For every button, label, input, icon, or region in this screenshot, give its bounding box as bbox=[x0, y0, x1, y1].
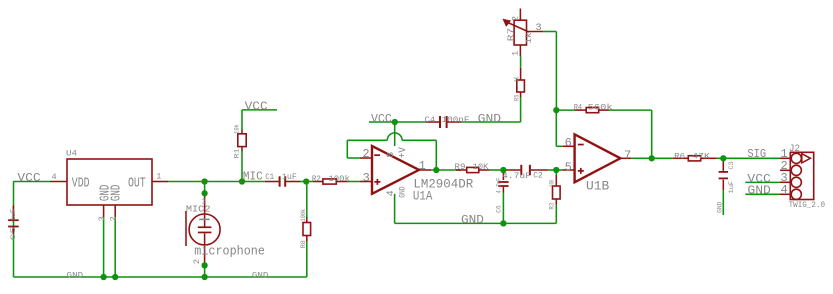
svg-text:47K: 47K bbox=[692, 152, 711, 162]
svg-text:OUT: OUT bbox=[128, 177, 146, 192]
svg-text:R4: R4 bbox=[574, 103, 583, 113]
svg-text:10K: 10K bbox=[473, 162, 490, 172]
svg-text:C5: C5 bbox=[10, 227, 18, 241]
svg-text:GND: GND bbox=[461, 213, 484, 227]
svg-text:1: 1 bbox=[201, 196, 206, 206]
svg-text:R7: R7 bbox=[506, 28, 516, 41]
svg-text:C1: C1 bbox=[265, 172, 274, 182]
svg-text:R5: R5 bbox=[514, 95, 522, 102]
svg-text:4: 4 bbox=[781, 183, 788, 197]
svg-text:GND: GND bbox=[110, 185, 125, 202]
svg-text:R3: R3 bbox=[548, 203, 556, 210]
svg-text:microphone: microphone bbox=[194, 245, 265, 259]
svg-text:R9: R9 bbox=[455, 162, 466, 172]
svg-text:VCC: VCC bbox=[245, 99, 268, 113]
svg-text:3: 3 bbox=[535, 22, 541, 34]
svg-text:100k: 100k bbox=[300, 209, 308, 222]
svg-text:2: 2 bbox=[511, 16, 521, 21]
svg-text:U1A: U1A bbox=[413, 189, 433, 204]
svg-text:MIC: MIC bbox=[243, 170, 263, 184]
svg-text:3: 3 bbox=[97, 216, 107, 221]
svg-text:1: 1 bbox=[156, 171, 161, 181]
svg-text:4.7uF: 4.7uF bbox=[502, 171, 531, 181]
svg-text:1uF: 1uF bbox=[282, 172, 297, 182]
svg-text:C3: C3 bbox=[728, 162, 736, 170]
svg-text:GND: GND bbox=[747, 184, 770, 198]
svg-text:GND: GND bbox=[67, 271, 83, 281]
svg-text:2: 2 bbox=[362, 147, 369, 161]
svg-text:R2: R2 bbox=[312, 174, 321, 184]
svg-text:2: 2 bbox=[192, 259, 202, 264]
svg-text:1uF: 1uF bbox=[10, 209, 18, 222]
svg-text:16K: 16K bbox=[548, 179, 556, 187]
svg-text:GND: GND bbox=[398, 186, 408, 197]
svg-text:8: 8 bbox=[386, 152, 397, 158]
svg-text:GND: GND bbox=[716, 201, 724, 212]
svg-text:3: 3 bbox=[363, 171, 370, 185]
svg-text:4.7nF: 4.7nF bbox=[496, 178, 504, 194]
svg-text:6: 6 bbox=[565, 136, 572, 150]
svg-text:2: 2 bbox=[108, 216, 118, 221]
svg-text:MIC2: MIC2 bbox=[186, 203, 211, 214]
svg-text:C6: C6 bbox=[496, 205, 504, 213]
svg-text:R6: R6 bbox=[674, 152, 685, 162]
svg-text:C2: C2 bbox=[533, 171, 543, 181]
svg-text:TWIG_2.0: TWIG_2.0 bbox=[789, 201, 825, 210]
svg-text:SIG: SIG bbox=[747, 147, 766, 161]
svg-text:1: 1 bbox=[511, 51, 521, 56]
svg-text:1uF: 1uF bbox=[728, 181, 736, 194]
svg-text:7: 7 bbox=[624, 149, 631, 163]
svg-text:100nF: 100nF bbox=[442, 115, 470, 125]
svg-text:VDD: VDD bbox=[72, 177, 90, 192]
svg-text:1k: 1k bbox=[524, 32, 534, 43]
svg-text:10k: 10k bbox=[233, 124, 241, 134]
svg-text:U4: U4 bbox=[66, 148, 77, 158]
svg-text:C4: C4 bbox=[425, 115, 436, 125]
svg-text:VCC: VCC bbox=[371, 112, 392, 126]
svg-text:U1B: U1B bbox=[586, 179, 609, 194]
svg-text:J2: J2 bbox=[789, 143, 800, 155]
svg-text:VCC: VCC bbox=[17, 171, 40, 185]
svg-text:R1: R1 bbox=[233, 149, 241, 159]
svg-text:4: 4 bbox=[52, 172, 57, 182]
svg-text:560k: 560k bbox=[588, 103, 613, 113]
svg-text:+V: +V bbox=[398, 147, 409, 158]
svg-text:1: 1 bbox=[419, 159, 426, 173]
svg-text:1K: 1K bbox=[514, 76, 522, 82]
svg-text:GND: GND bbox=[252, 270, 268, 280]
svg-text:100k: 100k bbox=[328, 174, 350, 184]
svg-text:R8: R8 bbox=[300, 240, 308, 248]
svg-text:GND: GND bbox=[478, 112, 501, 126]
svg-text:4: 4 bbox=[386, 190, 397, 196]
svg-text:5: 5 bbox=[565, 161, 572, 175]
